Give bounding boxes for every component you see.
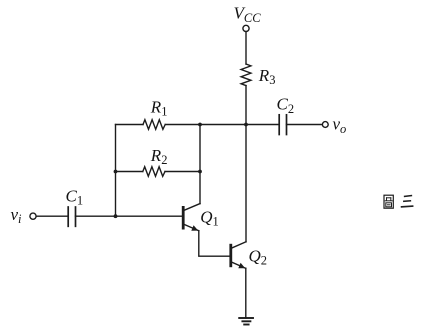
wire R1 to node [165,124,246,126]
label Q2 [249,246,268,267]
resistor R2 [143,167,165,177]
transistor Q1 [183,204,200,231]
transistor Q2 [231,242,246,268]
label v_i [11,205,23,226]
capacitor C2 [278,115,280,135]
resistor R1 [143,120,165,130]
resistor R3 [241,64,251,86]
wire vi to C1 [36,215,68,217]
wire R3 down to Q2 collector [245,86,247,242]
label C2 [277,95,295,116]
ground [239,318,253,325]
wire left vertical R1 to base row [115,125,117,217]
wire R2 to right vertical [165,171,200,173]
三 strokes [405,195,412,198]
svg-text:VCC: VCC [234,4,262,25]
capacitor C1 [67,207,69,226]
node R2 right junction [198,170,202,174]
label R3 [258,66,276,87]
wire R2 row left [116,171,143,173]
label v_o [333,115,347,136]
label V_CC [234,4,262,25]
terminal vi [30,213,36,219]
svg-text:R1: R1 [150,97,168,118]
svg-text:vo: vo [333,115,347,136]
svg-text:R2: R2 [150,146,168,167]
wire right vertical node to Q1 collector [199,125,201,204]
svg-text:R3: R3 [258,66,276,87]
node C2 junction [244,123,248,127]
wire Q1 emitter to Q2 base [199,231,230,257]
svg-text:C1: C1 [66,186,84,207]
label C1 [66,186,84,207]
圖 outer box [384,195,393,208]
label R2 [150,146,168,167]
wire C1 to Q1 base [76,215,183,217]
wire C2 to vo [287,124,323,126]
wire Q2 emitter to ground [245,268,247,318]
svg-text:Q2: Q2 [249,246,268,267]
node base wire junction [114,214,118,218]
svg-text:Q1: Q1 [200,207,219,228]
caption figure 圖三 [384,195,413,208]
svg-text:vi: vi [11,205,23,226]
node R1-collector junction [198,123,202,127]
terminal vo [322,122,328,128]
wire VCC to R3 [245,32,247,64]
label R1 [150,97,168,118]
svg-text:C2: C2 [277,95,295,116]
wire R1 row to output [116,124,144,126]
terminal VCC [243,25,249,31]
label Q1 [200,207,219,228]
node R2 left junction [114,170,118,174]
wire node to C2 [246,124,279,126]
